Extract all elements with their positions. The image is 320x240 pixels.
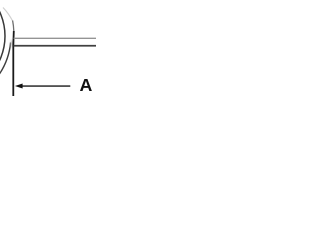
outer ring lower arc [0,43,11,74]
inner eye arc (hole edge) [0,0,5,94]
section cutting line [12,31,15,96]
junction fuzz [11,40,14,48]
arrow tail [22,85,71,87]
shaft top line [14,37,96,39]
shaft bottom line [14,45,96,47]
arrowhead [15,84,23,89]
svg-text:A: A [80,75,93,95]
outer arc becoming vertical [13,21,14,32]
faint outer arc top [3,8,13,22]
